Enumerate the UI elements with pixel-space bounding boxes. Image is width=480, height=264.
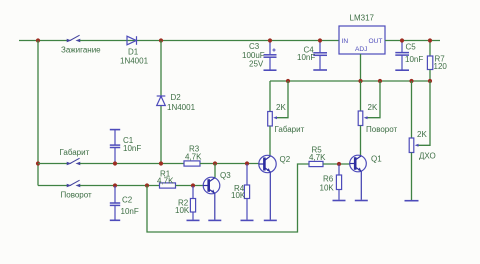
ground under Q3 bbox=[208, 219, 221, 221]
wire Габарит line R3 to Q2 base bbox=[200, 163, 263, 165]
resistor R2 bbox=[190, 186, 195, 220]
svg-text:Q1: Q1 bbox=[371, 155, 382, 164]
diode D1 bbox=[127, 36, 137, 45]
svg-text:10K: 10K bbox=[231, 191, 246, 200]
label Поворот switch bbox=[61, 191, 93, 200]
svg-text:4,7K: 4,7K bbox=[185, 153, 202, 162]
node junction (270,40) bbox=[268, 38, 272, 42]
wire ADJ rail y=81 bbox=[270, 80, 430, 82]
svg-text:Поворот: Поворот bbox=[366, 125, 398, 134]
node junction (380,81) bbox=[378, 79, 382, 83]
switch Зажигание bbox=[67, 35, 80, 42]
capacitor C4 bbox=[313, 41, 327, 69]
ground under Q2 bbox=[264, 219, 277, 221]
svg-text:ДХО: ДХО bbox=[419, 152, 436, 161]
wire Поворот trimmer top lead bbox=[360, 81, 362, 111]
capacitor C1 bbox=[110, 130, 120, 163]
resistor R4 bbox=[244, 164, 249, 220]
label 2K Габарит trimmer bbox=[276, 103, 286, 112]
label Габарит net bbox=[275, 125, 305, 134]
svg-text:10K: 10K bbox=[320, 184, 335, 193]
node junction (320,40) bbox=[318, 38, 322, 42]
ground under C2 bbox=[110, 219, 120, 221]
label Q2 bbox=[280, 155, 291, 164]
label D2 1N4001 bbox=[167, 93, 196, 112]
label R7 120 bbox=[434, 55, 448, 72]
node junction (115,185.5) bbox=[113, 183, 117, 187]
label C1 10nF bbox=[123, 136, 141, 153]
node junction (360,81) bbox=[358, 79, 362, 83]
trimmer 2K Поворот bbox=[358, 111, 367, 126]
svg-text:ADJ: ADJ bbox=[355, 46, 367, 53]
capacitor C2 bbox=[110, 186, 120, 220]
node junction (147,185.5) bbox=[145, 183, 149, 187]
svg-text:10nF: 10nF bbox=[121, 207, 139, 216]
transistor Q1 bbox=[350, 155, 367, 172]
label R4 10K bbox=[231, 184, 246, 200]
wire ADJ pin vertical bbox=[360, 54, 362, 81]
svg-text:10K: 10K bbox=[175, 206, 190, 215]
svg-text:Q3: Q3 bbox=[220, 171, 231, 180]
ground above C1 bbox=[110, 129, 120, 131]
resistor R3 bbox=[184, 161, 200, 166]
svg-text:10nF: 10nF bbox=[405, 55, 423, 64]
node junction (430,81) bbox=[428, 79, 432, 83]
label R5 4,7K bbox=[309, 146, 326, 163]
label R3 4,7K bbox=[185, 145, 202, 162]
wire R5 to Q1 base bbox=[323, 163, 354, 165]
wire Поворот trimmer bottom to Q1 collector bbox=[360, 126, 362, 156]
svg-text:IN: IN bbox=[342, 38, 349, 45]
svg-text:D2: D2 bbox=[171, 93, 182, 102]
node junction (402,40) bbox=[400, 38, 404, 42]
svg-text:2K: 2K bbox=[368, 103, 378, 112]
node junction (339,164) bbox=[337, 162, 341, 166]
label 2K ДХО trimmer bbox=[417, 130, 427, 139]
svg-text:1N4001: 1N4001 bbox=[120, 57, 149, 66]
wire Габарит line left segment bbox=[38, 163, 67, 165]
label R2 10K bbox=[175, 199, 190, 216]
resistor R5 bbox=[309, 161, 323, 166]
trimmer 2K Габарит bbox=[268, 112, 277, 127]
ground under C5 bbox=[395, 69, 409, 71]
wire Габарит line to R3 bbox=[80, 163, 184, 165]
ground under C4 bbox=[313, 69, 327, 71]
svg-text:2K: 2K bbox=[276, 103, 286, 112]
node junction (38,40) bbox=[36, 38, 40, 42]
wire Поворот line R1 to Q3 base bbox=[176, 185, 208, 187]
capacitor C5 bbox=[395, 41, 409, 70]
transistor Q3 bbox=[203, 177, 220, 194]
wire ДХО wiper drop bbox=[419, 81, 431, 145]
svg-text:4,7K: 4,7K bbox=[157, 176, 174, 185]
label LM317 bbox=[350, 14, 375, 23]
svg-text:4,7K: 4,7K bbox=[309, 153, 326, 162]
ground under C3 bbox=[264, 69, 277, 71]
svg-text:C5: C5 bbox=[406, 43, 417, 52]
label R6 10K bbox=[320, 175, 335, 193]
svg-text:D1: D1 bbox=[128, 48, 139, 57]
svg-text:R6: R6 bbox=[323, 175, 334, 184]
node junction (115,163.5) bbox=[113, 161, 117, 165]
svg-text:LM317: LM317 bbox=[350, 14, 375, 23]
wire top rail left segment bbox=[19, 40, 67, 42]
wire left vertical x=38 bbox=[37, 41, 39, 186]
wire Q3 collector vertical bbox=[214, 164, 216, 178]
wire Поворот line left corner bbox=[38, 185, 67, 187]
label Поворот net bbox=[366, 125, 398, 134]
label D1 1N4001 bbox=[120, 48, 149, 66]
label C2 10nF bbox=[121, 196, 139, 217]
svg-text:120: 120 bbox=[434, 62, 448, 71]
label Зажигание bbox=[61, 46, 101, 55]
label Q1 bbox=[371, 155, 382, 164]
wire Габарит trimmer bottom to Q2 collector bbox=[269, 126, 271, 156]
ground under R6 bbox=[333, 200, 346, 202]
ground under Q1 bbox=[355, 200, 368, 202]
svg-text:25V: 25V bbox=[249, 60, 264, 69]
resistor R6 bbox=[336, 165, 341, 200]
wire Габарит trimmer top lead bbox=[269, 81, 271, 112]
node junction (215,163.5) bbox=[213, 161, 217, 165]
node junction (161,40) bbox=[159, 38, 163, 42]
label 2K Поворот trimmer bbox=[368, 103, 378, 112]
node junction (161,163.5) bbox=[159, 161, 163, 165]
wire Q3 emitter to ground bbox=[214, 193, 216, 220]
wire Габарит wiper drop bbox=[277, 81, 288, 118]
node junction (430,40) bbox=[428, 38, 432, 42]
wire Q1 emitter to ground bbox=[360, 171, 362, 200]
svg-text:Q2: Q2 bbox=[280, 155, 291, 164]
wire top rail right segment bbox=[385, 40, 440, 42]
node junction (247,163.5) bbox=[245, 161, 249, 165]
ground under R2 bbox=[187, 219, 200, 221]
trimmer 2K ДХО bbox=[409, 138, 418, 153]
svg-text:1N4001: 1N4001 bbox=[167, 103, 196, 112]
label Габарит switch bbox=[60, 148, 90, 157]
transistor Q2 bbox=[259, 155, 276, 172]
wire Поворот wiper drop bbox=[368, 81, 381, 118]
svg-text:2K: 2K bbox=[417, 130, 427, 139]
capacitor C3 bbox=[264, 41, 277, 70]
node junction (193,185.5) bbox=[191, 183, 195, 187]
svg-text:Габарит: Габарит bbox=[275, 125, 305, 134]
diode D2 bbox=[157, 96, 166, 106]
label Q3 bbox=[220, 171, 231, 180]
wire D2 vertical x=161 bbox=[160, 41, 162, 164]
ground under ДХО trimmer bbox=[405, 200, 419, 202]
wire ДХО trimmer top lead bbox=[411, 81, 413, 138]
wire Q2 emitter to ground bbox=[269, 172, 271, 220]
label R1 4,7K bbox=[157, 170, 174, 186]
wire feedback drop to R5 bbox=[147, 164, 309, 232]
svg-text:10nF: 10nF bbox=[123, 144, 141, 153]
label ДХО net bbox=[419, 152, 436, 161]
svg-text:OUT: OUT bbox=[369, 38, 383, 45]
svg-text:Габарит: Габарит bbox=[60, 148, 90, 157]
svg-text:C2: C2 bbox=[122, 196, 133, 205]
svg-text:Зажигание: Зажигание bbox=[61, 46, 101, 55]
resistor R7 bbox=[427, 41, 432, 81]
node junction (38,163.5) bbox=[36, 161, 40, 165]
label C4 10nF bbox=[297, 46, 315, 63]
svg-text:Поворот: Поворот bbox=[61, 191, 93, 200]
ground under R4 bbox=[241, 219, 254, 221]
svg-text:C3: C3 bbox=[249, 42, 260, 51]
switch Поворот bbox=[67, 180, 80, 187]
wire top rail mid segment bbox=[80, 40, 339, 42]
switch Габарит bbox=[67, 158, 80, 165]
label C3 100uF 25V bbox=[242, 42, 265, 69]
svg-text:10nF: 10nF bbox=[297, 53, 315, 62]
label C5 10nF bbox=[405, 43, 423, 65]
resistor R1 bbox=[160, 183, 176, 188]
wire ДХО trimmer bottom lead bbox=[411, 153, 413, 201]
wire Поворот line to R1 bbox=[80, 185, 160, 187]
node junction (288,81) bbox=[286, 79, 290, 83]
op-amp U1 LM317 regulator box bbox=[339, 26, 385, 54]
node junction (411.5,81) bbox=[409, 79, 413, 83]
